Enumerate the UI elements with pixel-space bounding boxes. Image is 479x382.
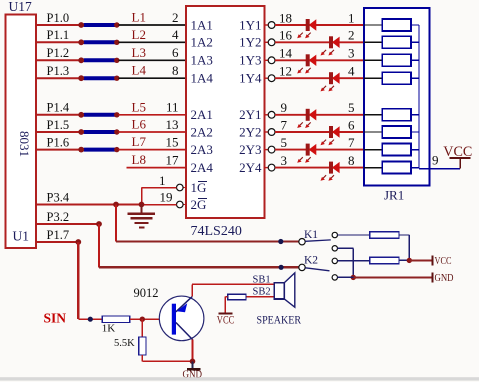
wire P1.2 from U17 to L3 — [36, 59, 82, 61]
LED D1 triangle — [309, 19, 317, 30]
wire SB2 speaker to fuse — [246, 296, 274, 298]
svg-text:74LS240: 74LS240 — [191, 224, 242, 239]
junction dot on K1 feed — [278, 239, 283, 244]
svg-text:8: 8 — [172, 63, 179, 78]
wire P1.6 from U17 to L7 — [36, 149, 82, 151]
wire U2 output stub row 5 — [265, 114, 269, 116]
svg-text:1A1: 1A1 — [191, 17, 213, 32]
LED D2 emission arrows — [322, 50, 326, 54]
junction dot left of L4 — [78, 75, 84, 81]
svg-text:P1.4: P1.4 — [47, 101, 70, 115]
ground symbol for 1G 2G — [141, 205, 143, 213]
junction dot left of L3 — [78, 57, 84, 63]
LED D8 emission arrows — [322, 175, 326, 179]
resistor R2 5.5K — [139, 337, 146, 355]
svg-text:2A3: 2A3 — [191, 142, 213, 157]
junction dot GND node — [351, 275, 356, 280]
junction dot right of L6 — [114, 129, 119, 134]
wire U2 output stub row 7 — [265, 149, 269, 151]
fuse F1 on SB2 — [228, 294, 246, 299]
wire L8 to U2 pin 17 — [127, 167, 187, 169]
speaker LS1 body — [274, 283, 284, 299]
svg-text:5.5K: 5.5K — [114, 338, 135, 349]
resistor R1 1K — [102, 316, 130, 323]
wire L4 to U2 pin 8 — [119, 77, 187, 79]
wire output 12 to JR1 — [275, 77, 364, 79]
LED D6 triangle — [332, 126, 340, 137]
JR1 resistor 6 to common bus — [411, 131, 419, 133]
LED D4 emission arrows — [322, 86, 326, 90]
LED D1 cathode bar — [306, 19, 310, 31]
svg-text:16: 16 — [279, 28, 293, 43]
inductor L6 bar — [83, 130, 117, 134]
wire SIN to 1K — [78, 318, 102, 320]
junction dot node P1.7 — [75, 239, 81, 245]
LED D3 cathode bar — [306, 54, 310, 66]
relay contact terminal 1 — [332, 232, 337, 237]
JR1 resistor element 8 — [382, 162, 411, 174]
JR1 internal lead row 4 — [364, 77, 382, 79]
svg-text:K1: K1 — [304, 229, 318, 241]
svg-text:7: 7 — [281, 117, 288, 132]
wire to VCC stub — [409, 259, 432, 261]
inversion bubble output 3 — [268, 164, 275, 171]
LED D1 emission arrows — [299, 33, 303, 37]
svg-text:1Y2: 1Y2 — [239, 35, 261, 50]
svg-text:VCC: VCC — [435, 256, 452, 267]
svg-text:2Y2: 2Y2 — [239, 124, 261, 139]
page margin line — [0, 377, 479, 380]
JR1 resistor element 6 — [382, 126, 411, 138]
wire RK2 to VCC node — [399, 259, 409, 261]
JR1 internal lead row 3 — [364, 59, 382, 61]
svg-text:9012: 9012 — [134, 286, 159, 300]
inversion bubble output 5 — [268, 146, 275, 153]
IC U17 8031 microcontroller body — [6, 14, 37, 248]
svg-text:17: 17 — [166, 152, 180, 167]
LED D5 emission arrows — [299, 122, 303, 126]
svg-text:14: 14 — [279, 46, 293, 61]
svg-text:2Y1: 2Y1 — [239, 107, 261, 122]
svg-text:2A4: 2A4 — [191, 160, 214, 175]
svg-text:P1.0: P1.0 — [47, 11, 70, 25]
svg-text:12: 12 — [279, 64, 292, 79]
wire emitter up — [191, 284, 193, 296]
svg-text:1Y3: 1Y3 — [239, 53, 261, 68]
LED D6 cathode bar — [329, 126, 333, 138]
svg-text:18: 18 — [279, 10, 292, 25]
wire L7 to U2 pin 15 — [119, 149, 187, 151]
svg-text:P1.7: P1.7 — [47, 228, 70, 242]
junction dot on K2 feed — [279, 265, 284, 270]
svg-text:1K: 1K — [102, 323, 116, 335]
inversion bubble output 16 — [268, 39, 275, 46]
svg-text:L2: L2 — [132, 27, 146, 42]
inductor L2 bar — [83, 40, 117, 44]
JR1 internal lead row 7 — [364, 149, 382, 151]
junction dot right of L4 — [114, 76, 119, 81]
JR1 resistor element 3 — [382, 54, 411, 66]
GND power stub — [432, 272, 434, 282]
svg-text:P1.6: P1.6 — [47, 135, 70, 149]
svg-text:P3.4: P3.4 — [47, 190, 70, 204]
wire contact3 to resistor RK2 — [338, 260, 370, 262]
inversion bubble output 14 — [268, 57, 275, 64]
wire P1.5 from U17 to L6 — [36, 131, 82, 133]
LED D5 cathode bar — [306, 109, 310, 121]
svg-text:P3.2: P3.2 — [47, 210, 70, 224]
transistor Q1 circle — [159, 296, 204, 341]
junction dot left of L2 — [78, 39, 84, 45]
svg-text:1A2: 1A2 — [191, 35, 213, 50]
junction dot left of L6 — [78, 129, 84, 135]
svg-text:9: 9 — [281, 100, 288, 115]
LED D3 triangle — [309, 55, 317, 66]
wire P3.4 node down to K1 — [115, 205, 117, 242]
VCC power symbol — [449, 157, 470, 159]
svg-text:L1: L1 — [132, 10, 146, 25]
JR1 resistor element 5 — [382, 109, 411, 121]
junction dot on SIN wire — [88, 317, 93, 322]
LED D8 cathode bar — [329, 162, 333, 174]
svg-text:L5: L5 — [132, 99, 146, 114]
junction dot right of L1 — [114, 22, 119, 27]
svg-text:P1.2: P1.2 — [47, 46, 70, 60]
wire output 9 to JR1 — [275, 114, 364, 116]
wire output 5 to JR1 — [275, 149, 364, 151]
wire output 18 to JR1 — [275, 24, 364, 26]
svg-text:1G: 1G — [191, 180, 207, 195]
resistor RK1 — [370, 232, 399, 239]
wire P1.7 down to SIN node — [77, 242, 79, 319]
svg-text:8: 8 — [348, 153, 355, 168]
wire P3.2 down to K2 — [98, 224, 100, 267]
resistor RK2 — [370, 257, 399, 263]
wire RK1 to VCC node — [399, 234, 409, 236]
svg-text:7: 7 — [348, 135, 355, 150]
svg-text:L8: L8 — [132, 152, 146, 167]
switch K2 pole contact — [299, 264, 305, 270]
inductor L1 bar — [83, 23, 117, 27]
wire L1 to U2 pin 2 — [119, 24, 187, 26]
junction dot right of L5 — [114, 112, 119, 117]
wire U2 output stub row 3 — [265, 59, 269, 61]
JR1 resistor 8 to common bus — [411, 167, 419, 169]
wire U2 output stub row 4 — [265, 77, 269, 79]
svg-text:5: 5 — [348, 100, 355, 115]
junction dot collector/ground — [190, 359, 196, 365]
svg-text:19: 19 — [160, 190, 173, 205]
wire R2 to ground node — [141, 355, 143, 361]
wire output 3 to JR1 — [275, 167, 364, 169]
LED D7 triangle — [309, 144, 317, 155]
svg-text:1: 1 — [348, 10, 355, 25]
LED D7 emission arrows — [299, 157, 303, 161]
JR1 resistor 5 to common bus — [411, 114, 419, 116]
wire base node to R2 — [141, 319, 143, 337]
svg-text:2G: 2G — [191, 197, 207, 212]
JR1 resistor 3 to common bus — [411, 59, 419, 61]
JR1 internal lead row 8 — [364, 167, 382, 169]
JR1 resistor 4 to common bus — [411, 77, 419, 79]
JR1 internal lead row 2 — [364, 41, 382, 43]
switch K2 lever — [305, 268, 329, 271]
svg-text:6: 6 — [348, 117, 355, 132]
junction dot node 2G/ground — [139, 202, 145, 208]
wire U2 output stub row 6 — [265, 131, 269, 133]
relay contact terminal 4 — [332, 275, 337, 280]
svg-text:5: 5 — [281, 135, 288, 150]
VCC power stub — [432, 255, 434, 265]
inversion bubble pin 19 (2G) — [183, 204, 186, 206]
junction dot base node — [140, 317, 145, 322]
wire K2 feed — [99, 266, 299, 268]
svg-text:11: 11 — [166, 100, 179, 115]
LED D2 cathode bar — [329, 36, 333, 48]
junction dot right of L3 — [114, 58, 119, 63]
wire U2 output stub row 8 — [265, 167, 269, 169]
GND power symbol under Q1 — [192, 361, 194, 368]
inductor L7 bar — [83, 148, 117, 152]
inversion bubble output 7 — [268, 129, 275, 136]
wire output 16 to JR1 — [275, 41, 364, 43]
junction dot node P3.4/K1 — [113, 202, 119, 208]
svg-text:13: 13 — [166, 117, 179, 132]
speaker LS1 horn — [284, 273, 294, 307]
wire P1.0 from U17 to L1 — [36, 24, 82, 26]
svg-text:P1.3: P1.3 — [47, 64, 70, 78]
wire JR1 pin 9 to VCC — [419, 168, 460, 170]
svg-text:L7: L7 — [132, 134, 147, 149]
transistor Q1 emitter arrow (PNP) — [177, 303, 188, 312]
wire contact1 to resistor RK1 — [338, 234, 370, 236]
JR1 resistor 7 to common bus — [411, 149, 419, 151]
wire 1K to Q1 base — [130, 318, 172, 320]
wire U2 output stub row 1 — [265, 24, 269, 26]
inductor L5 bar — [83, 113, 117, 117]
wire output 7 to JR1 — [275, 131, 364, 133]
svg-text:L6: L6 — [132, 117, 147, 132]
wire L3 to U2 pin 6 — [119, 59, 187, 61]
svg-text:L3: L3 — [132, 45, 146, 60]
svg-text:U1: U1 — [13, 229, 30, 244]
junction dot right of L7 — [114, 147, 119, 152]
wire fuse to VCC — [225, 296, 227, 298]
svg-text:4: 4 — [348, 64, 355, 79]
LED D5 triangle — [309, 109, 317, 120]
svg-text:1A3: 1A3 — [191, 53, 213, 68]
svg-text:SB1: SB1 — [253, 275, 271, 286]
svg-text:1: 1 — [159, 173, 166, 188]
svg-text:SPEAKER: SPEAKER — [257, 313, 302, 327]
resistor network JR1 body — [364, 8, 429, 186]
wire L6 to U2 pin 13 — [119, 131, 187, 133]
LED D7 cathode bar — [306, 144, 310, 156]
wire P1.1 from U17 to L2 — [36, 41, 82, 43]
JR1 internal lead row 5 — [364, 114, 382, 116]
inversion bubble output 9 — [268, 111, 275, 118]
svg-text:2A1: 2A1 — [191, 107, 213, 122]
switch K1 lever — [305, 240, 331, 241]
wire P3.4 from U17 — [36, 204, 141, 206]
wire P1.4 from U17 to L5 — [36, 114, 82, 116]
inductor L3 bar — [83, 58, 117, 62]
svg-text:2: 2 — [172, 10, 179, 25]
inversion bubble output 12 — [268, 75, 275, 82]
switch K1 pole contact — [299, 239, 305, 245]
wire P1.7 from U17 — [36, 241, 78, 243]
LED D2 triangle — [332, 37, 340, 48]
svg-text:1Y1: 1Y1 — [239, 17, 261, 32]
svg-text:K2: K2 — [304, 255, 318, 267]
JR1 resistor element 4 — [382, 72, 411, 84]
LED D6 emission arrows — [322, 140, 326, 144]
wire contact2 down — [338, 247, 354, 249]
svg-text:P1.5: P1.5 — [47, 118, 70, 132]
junction dot VCC node — [407, 258, 412, 263]
wire P3.2 from U17 — [36, 223, 99, 225]
svg-text:VCC: VCC — [443, 144, 472, 160]
svg-text:9: 9 — [432, 153, 439, 168]
svg-text:2Y4: 2Y4 — [239, 160, 262, 175]
LED D3 emission arrows — [299, 68, 303, 72]
svg-text:1A4: 1A4 — [191, 71, 214, 86]
svg-text:GND: GND — [435, 273, 454, 284]
JR1 resistor element 2 — [382, 36, 411, 48]
wire output 14 to JR1 — [275, 59, 364, 61]
svg-text:2A2: 2A2 — [191, 124, 213, 139]
JR1 resistor element 1 — [382, 19, 411, 31]
junction dot node P3.2 — [96, 221, 102, 227]
transistor Q1 collector line — [176, 323, 193, 340]
svg-text:3: 3 — [281, 153, 288, 168]
wire collector down — [192, 340, 194, 362]
inversion bubble output 18 — [268, 22, 275, 29]
svg-text:6: 6 — [172, 45, 179, 60]
svg-text:SIN: SIN — [44, 310, 67, 325]
inversion bubble pin 1 (1G) — [183, 187, 186, 189]
transistor Q1 base bar — [172, 304, 176, 335]
svg-text:L4: L4 — [132, 63, 147, 78]
wire 1G enable — [142, 187, 177, 189]
wire L5 to U2 pin 11 — [119, 114, 187, 116]
wire 1G-2G vertical — [141, 188, 143, 205]
svg-text:P1.1: P1.1 — [47, 28, 70, 42]
wire K1 feed — [116, 240, 299, 242]
LED D4 triangle — [332, 73, 340, 84]
IC U2 74LS240 body — [186, 6, 265, 218]
svg-text:U17: U17 — [9, 0, 32, 14]
JR1 internal lead row 1 — [364, 24, 382, 26]
JR1 resistor 2 to common bus — [411, 41, 419, 43]
JR1 resistor element 7 — [382, 144, 411, 156]
junction dot left of L7 — [78, 147, 84, 153]
LED D8 triangle — [332, 162, 340, 173]
transistor Q1 emitter line — [176, 297, 192, 312]
svg-text:VCC: VCC — [217, 314, 235, 326]
junction dot right of L2 — [114, 40, 119, 45]
svg-text:4: 4 — [172, 27, 179, 42]
svg-text:8031: 8031 — [17, 131, 32, 157]
junction dot left of L5 — [78, 112, 84, 118]
relay contact terminal 3 — [332, 258, 337, 263]
svg-text:15: 15 — [166, 134, 179, 149]
wire contact4 to GND stub — [338, 276, 354, 278]
svg-text:2: 2 — [348, 28, 355, 43]
wire U2 output stub row 2 — [265, 41, 269, 43]
svg-text:JR1: JR1 — [384, 188, 404, 203]
wire 2G enable — [142, 204, 177, 206]
JR1 internal lead row 6 — [364, 131, 382, 133]
svg-text:2Y3: 2Y3 — [239, 142, 261, 157]
JR1 common bus — [418, 25, 420, 169]
JR1 resistor 1 to common bus — [411, 24, 419, 26]
svg-text:3: 3 — [348, 46, 355, 61]
junction dot left of L1 — [78, 22, 84, 28]
wire emitter to speaker SB1 — [192, 283, 274, 285]
wire P1.3 from U17 to L4 — [36, 77, 82, 79]
svg-text:1Y4: 1Y4 — [239, 71, 262, 86]
VCC power symbol at speaker — [218, 312, 232, 314]
LED D4 cathode bar — [329, 72, 333, 84]
wire L2 to U2 pin 4 — [119, 41, 187, 43]
inductor L4 bar — [83, 76, 117, 80]
relay contact terminal 2 — [332, 246, 337, 251]
